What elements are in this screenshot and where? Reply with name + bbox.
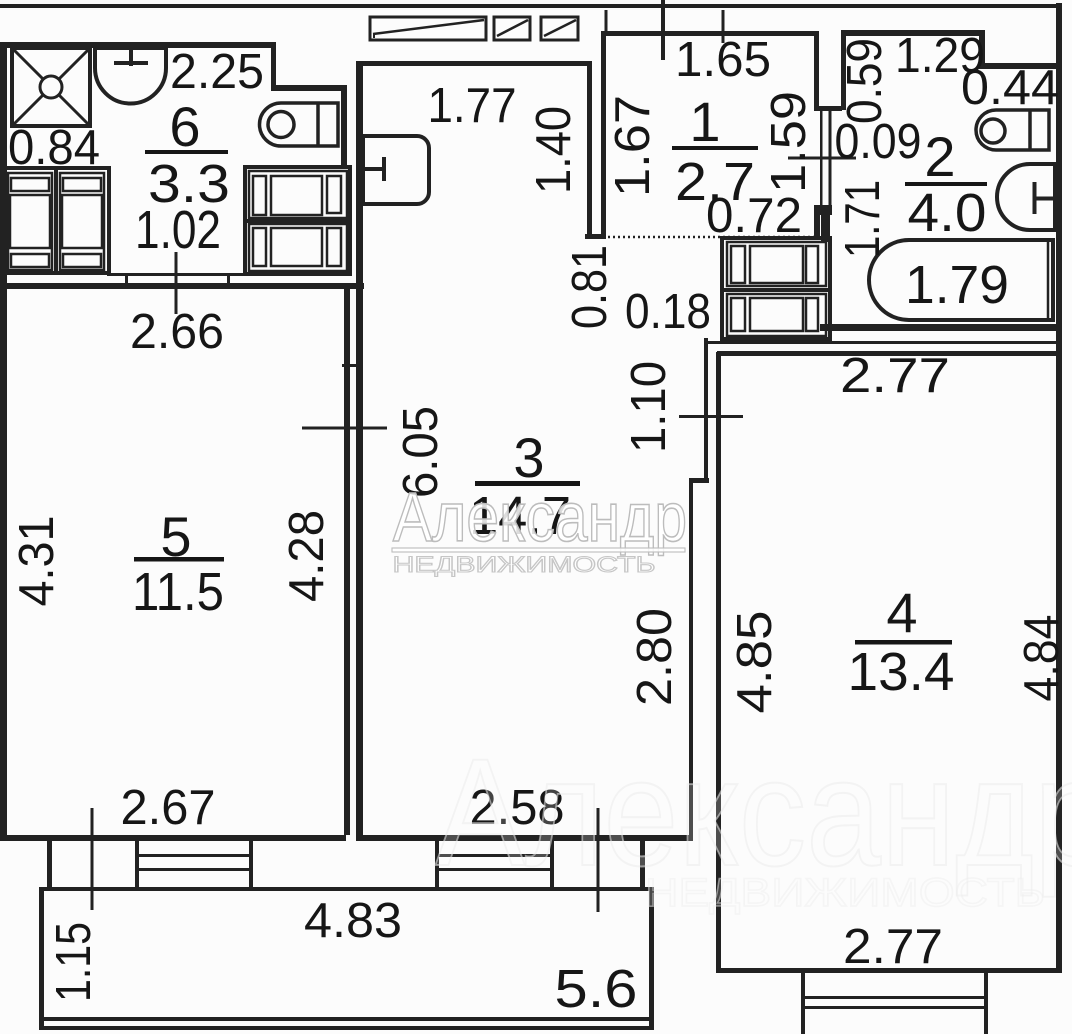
wire kitchen wall bottom cap — [585, 234, 603, 239]
svg-text:4.28: 4.28 — [280, 510, 334, 602]
svg-text:1.15: 1.15 — [47, 922, 101, 1002]
svg-text:6: 6 — [169, 95, 200, 158]
svg-text:1.77: 1.77 — [428, 79, 517, 133]
wire room5 fraction line — [134, 557, 224, 562]
wire balcony bottom line 1 — [39, 1017, 654, 1021]
appliance kitchen counter square unit 1 — [494, 17, 530, 40]
svg-text:2: 2 — [924, 125, 955, 188]
svg-text:0.84: 0.84 — [8, 121, 100, 175]
wire balcony dim line left — [91, 808, 94, 910]
wire divider wall room5/room3 west line — [344, 289, 350, 835]
wire dim tick top x606 — [605, 10, 608, 33]
window W5a glazing lines — [135, 854, 253, 857]
wire divider wall room5/room3 east line — [356, 61, 363, 841]
wire balcony dim line right — [597, 808, 600, 912]
fixture washbasin room2 — [997, 164, 1055, 230]
svg-text:0.18: 0.18 — [625, 285, 711, 339]
wire bath6 step vertical — [271, 42, 276, 87]
window W4 left jamb — [801, 973, 805, 1034]
svg-text:1.79: 1.79 — [905, 255, 1009, 315]
wire bath6 east wall upper — [341, 85, 347, 168]
svg-text:2.66: 2.66 — [130, 305, 224, 359]
wire room1 left wall — [601, 31, 606, 239]
window W5a left jamb — [135, 841, 139, 887]
wire room2 left wall upper — [841, 30, 846, 110]
wire room2 left wall lower — [821, 212, 830, 242]
node room1-room2 junction block — [815, 205, 832, 215]
wire room3 right wall lower-left line — [689, 481, 693, 838]
fixture kitchen sink — [363, 136, 429, 204]
wire room3 bottom wall — [357, 835, 693, 841]
wire room1 bottom dotted line — [603, 236, 814, 239]
svg-text:НЕДВИЖИМОСТЬ: НЕДВИЖИМОСТЬ — [393, 552, 656, 577]
svg-text:2.67: 2.67 — [121, 781, 216, 835]
wire room4 left wall upper-left line — [704, 338, 708, 481]
fixture toilet room6 — [260, 103, 339, 146]
wire room1 top wall — [601, 31, 819, 36]
wire balcony connector — [640, 841, 645, 887]
svg-text:2.77: 2.77 — [843, 920, 943, 974]
svg-text:13.4: 13.4 — [848, 642, 955, 702]
wire room4 top wall — [717, 351, 1062, 356]
appliance washer block A room6 left — [4, 168, 109, 273]
window W3a left jamb — [435, 841, 439, 887]
svg-text:1.02: 1.02 — [135, 200, 221, 260]
wire balcony top wall — [39, 887, 651, 891]
wire dim tick top x663 — [661, 0, 665, 60]
svg-text:0.72: 0.72 — [706, 189, 802, 243]
wire bath6 door jamb right — [227, 273, 230, 286]
wire kitchen top wall — [359, 61, 592, 66]
wire room2 fraction line — [905, 182, 987, 186]
svg-text:4.85: 4.85 — [728, 611, 782, 714]
svg-text:1.10: 1.10 — [622, 361, 676, 453]
wire dim leader 1.02 — [175, 252, 178, 314]
wire bath6 step horizontal — [271, 85, 346, 91]
svg-text:Александр: Александр — [393, 477, 687, 556]
wire bath6 top wall — [3, 42, 276, 48]
wire room1 door jamb left — [820, 110, 823, 207]
fixture toilet room2 — [976, 110, 1049, 150]
wire bath6 door threshold — [107, 273, 248, 276]
wire left outer wall — [0, 42, 7, 841]
svg-text:2.80: 2.80 — [628, 608, 682, 706]
wire balcony left pier — [47, 841, 52, 887]
wire dim tick 1.10 — [679, 415, 743, 418]
wire room2 top wall left part — [841, 30, 985, 36]
appliance washer block B room6 right — [245, 167, 350, 274]
wire top outer wall — [0, 4, 1062, 8]
wire kitchen right wall — [587, 61, 592, 236]
wire balcony left wall — [39, 887, 44, 1030]
window W4 right jamb — [984, 973, 988, 1034]
fixture shower tray room6 — [12, 48, 90, 126]
window W4 glazing lines — [801, 996, 988, 999]
wire room4 left wall right line — [716, 352, 721, 973]
svg-text:1.71: 1.71 — [836, 180, 890, 258]
svg-text:1.67: 1.67 — [606, 95, 660, 197]
wire room3 fraction line — [475, 481, 580, 486]
wire divider wall rung — [342, 364, 363, 367]
wire room4 fraction line — [855, 640, 952, 645]
svg-text:0.09: 0.09 — [835, 115, 922, 169]
appliance kitchen counter long unit — [370, 17, 486, 40]
wire room4 bottom wall — [717, 968, 1062, 973]
window W5a right jamb — [249, 841, 253, 887]
wire room1-room2 connector — [814, 106, 842, 111]
svg-text:1.65: 1.65 — [675, 33, 771, 87]
wire room1 right wall upper — [814, 31, 819, 110]
wire room1 right wall lower — [814, 205, 820, 236]
wire dim line 0.09 — [788, 157, 856, 160]
wire room2 top wall right part — [979, 63, 1062, 69]
wire room4 left wall jog — [689, 478, 709, 483]
fixture bathtub room2 — [869, 240, 1053, 320]
svg-text:1: 1 — [689, 90, 720, 153]
wire balcony right wall — [649, 887, 654, 1030]
svg-text:1.59: 1.59 — [762, 91, 816, 193]
svg-text:4.84: 4.84 — [1015, 615, 1069, 702]
svg-text:4.31: 4.31 — [10, 516, 64, 607]
svg-text:НЕДВИЖИМОСТЬ: НЕДВИЖИМОСТЬ — [645, 871, 1045, 915]
svg-text:2.25: 2.25 — [170, 45, 264, 99]
wire room1 door jamb right — [829, 110, 832, 210]
wire room2 top step vertical — [979, 30, 985, 69]
svg-text:5.6: 5.6 — [555, 959, 638, 1019]
svg-text:2.77: 2.77 — [840, 349, 950, 403]
appliance washer block C hallway — [722, 238, 830, 339]
svg-text:4: 4 — [886, 581, 917, 644]
watermark main logo underline — [392, 548, 685, 552]
wire bath6 door jamb left — [125, 273, 128, 286]
window W3a glazing lines — [435, 854, 554, 857]
svg-text:0.44: 0.44 — [961, 61, 1059, 115]
svg-text:0.81: 0.81 — [563, 245, 617, 329]
wire dim tick top x723 — [722, 10, 725, 43]
svg-text:11.5: 11.5 — [132, 562, 224, 622]
fixture washbasin room6 — [95, 48, 166, 104]
wire room4 top thin line — [704, 341, 1062, 344]
svg-text:1.40: 1.40 — [527, 106, 581, 194]
wire room6 fraction line — [145, 150, 228, 154]
window W3a right jamb — [550, 841, 554, 887]
appliance kitchen counter square unit 2 — [541, 17, 578, 40]
wire room2 bottom wall — [820, 324, 1062, 331]
svg-text:4.83: 4.83 — [304, 894, 402, 948]
wire bath6 bottom wall — [0, 283, 364, 289]
wire dim line 6.05 tick — [302, 427, 387, 430]
wire right outer wall — [1056, 3, 1062, 973]
wire room5 bottom wall — [0, 835, 346, 841]
svg-text:0.59: 0.59 — [838, 38, 892, 124]
wire room1 fraction line — [672, 146, 758, 150]
wire balcony bottom line 2 — [39, 1026, 654, 1030]
svg-text:4.0: 4.0 — [908, 183, 987, 243]
